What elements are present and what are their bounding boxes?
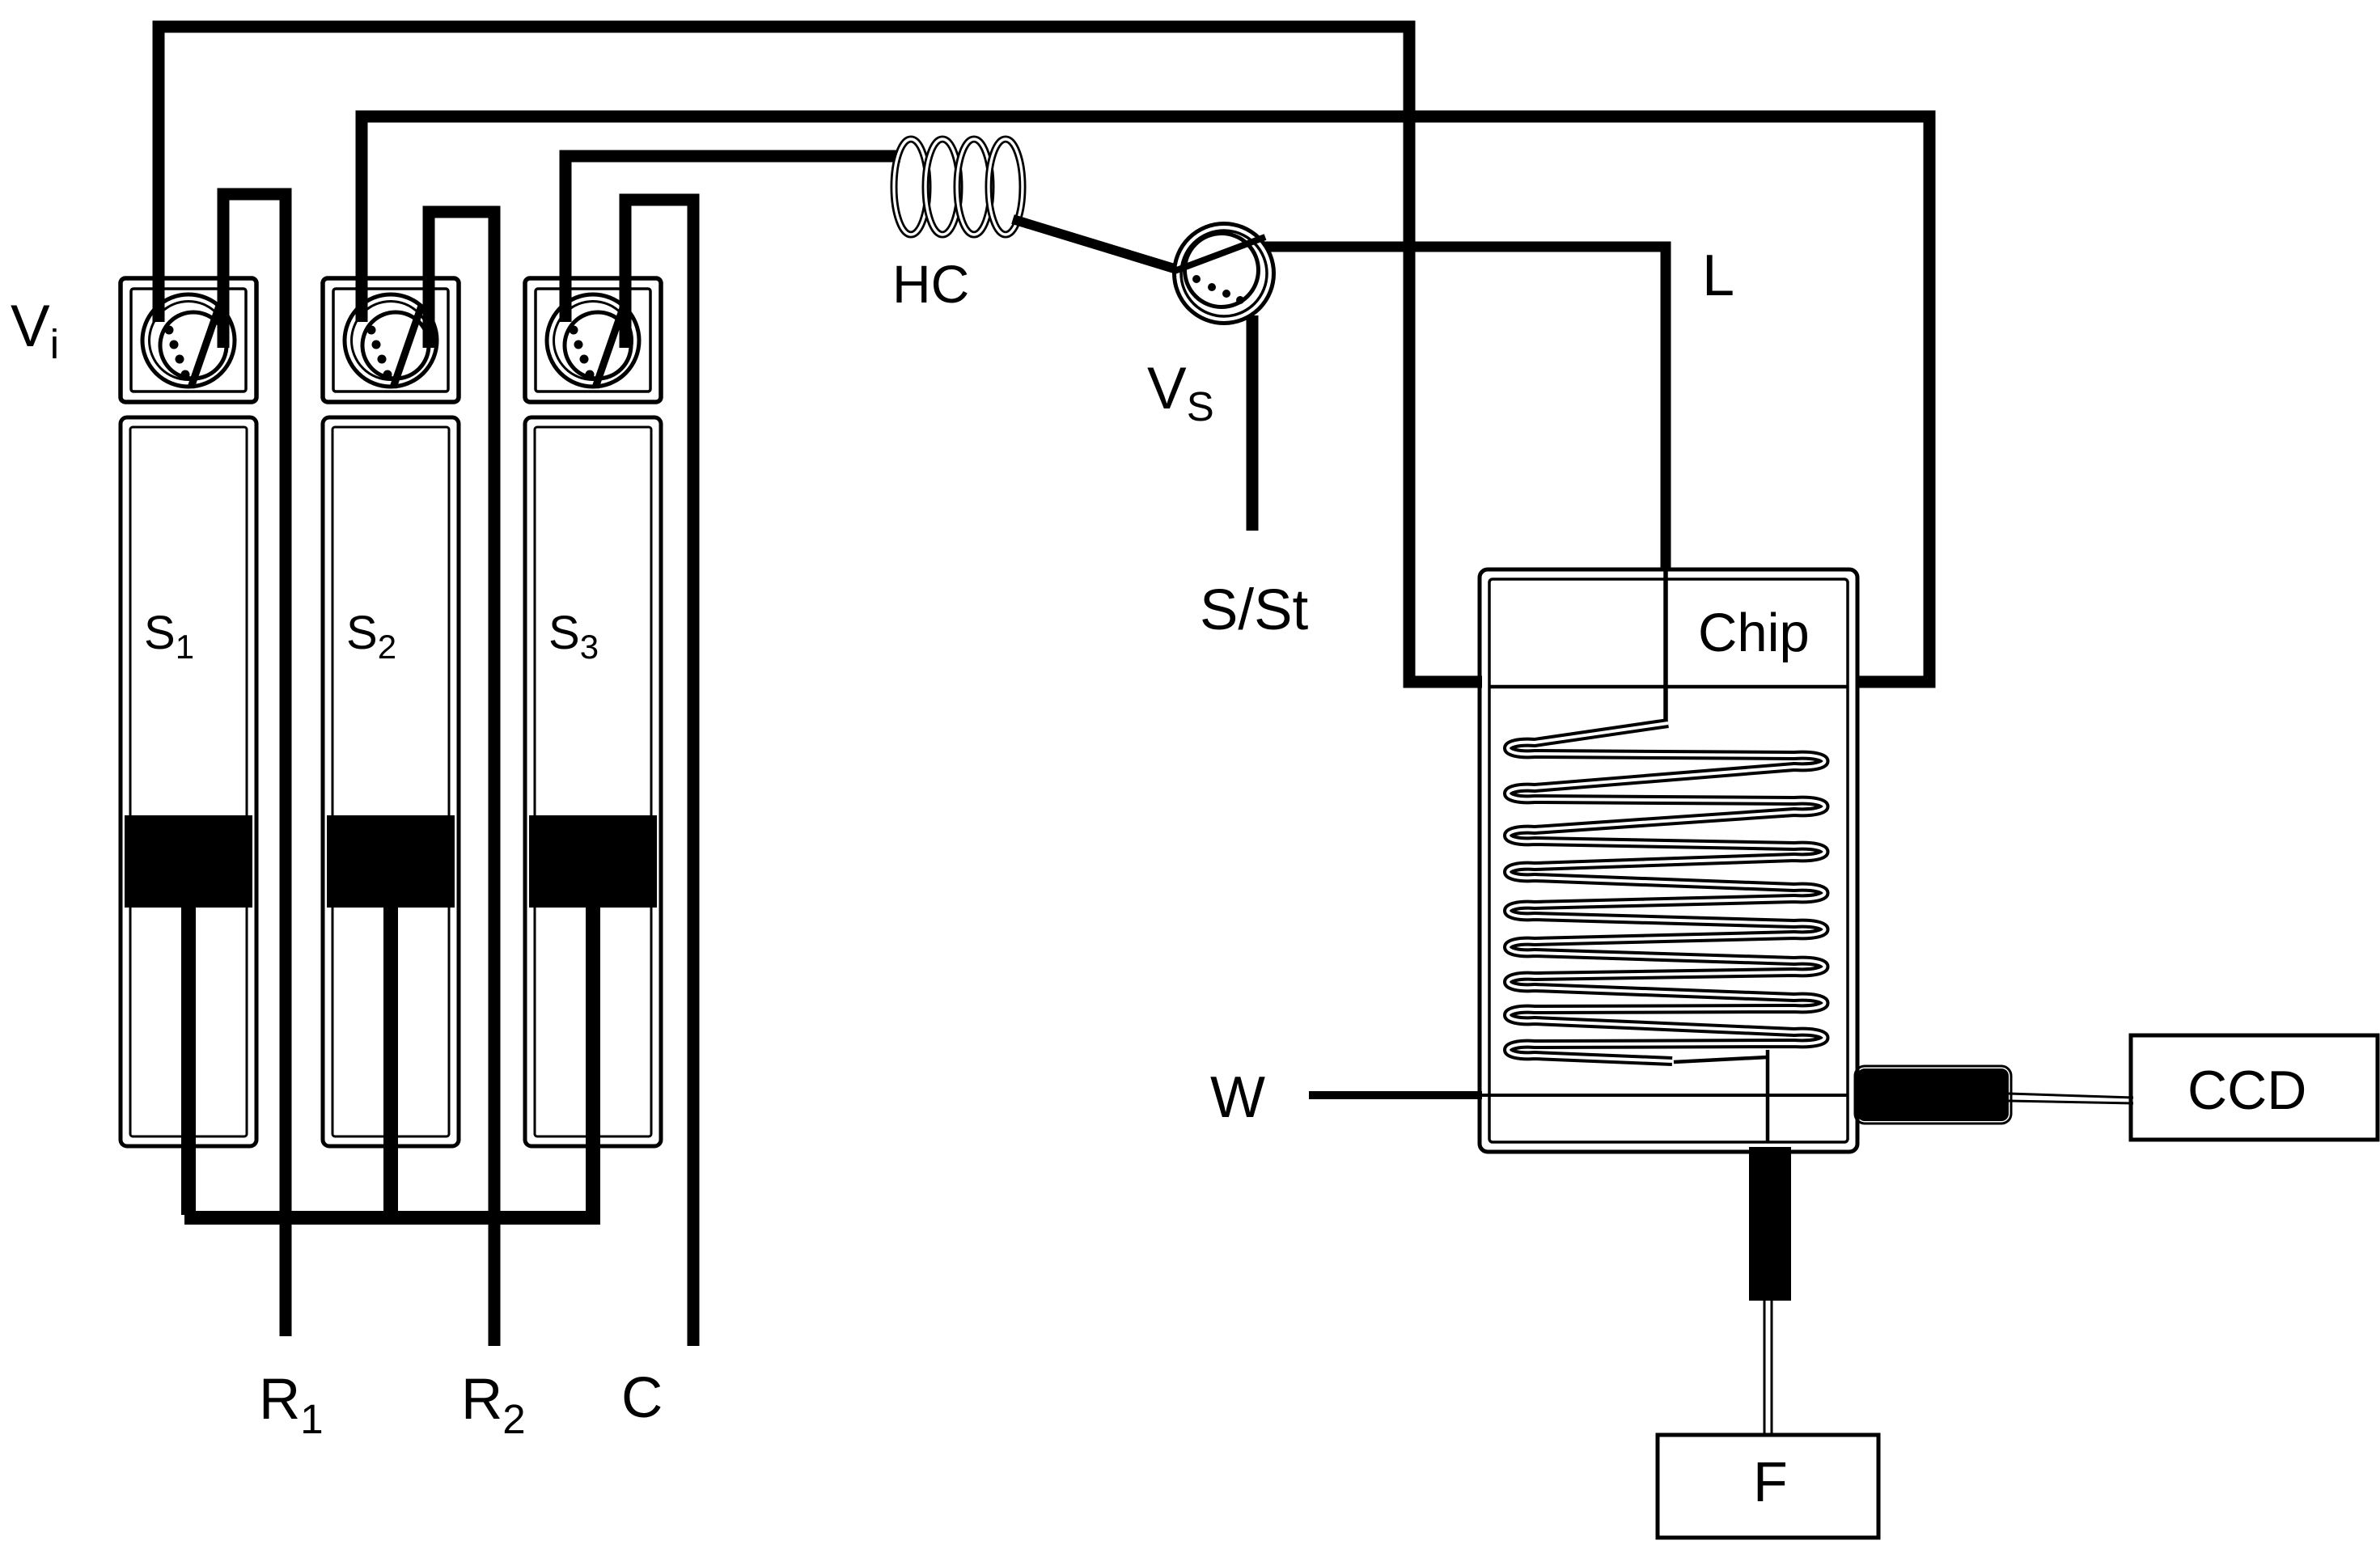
detector fiber holder (black bar to CCD) — [1855, 1066, 2011, 1123]
valve Vi unit 3 rotor — [547, 294, 639, 387]
chip inlet line — [1663, 569, 1668, 723]
valve Vi unit 3 box — [525, 278, 661, 402]
syringe S2 barrel — [323, 417, 459, 1146]
lamp fiber holder (black bar below chip) — [1749, 1147, 1791, 1301]
wire hairpin R2 inlet — [429, 212, 494, 1346]
wire W (waste line) — [1309, 1091, 1482, 1099]
wire hairpin R1 inlet — [223, 194, 286, 1336]
syringe S2 plunger rod — [383, 908, 398, 1215]
syringe S3 plunger — [529, 815, 657, 908]
svg-text:F: F — [1753, 1450, 1788, 1513]
wire hairpin C inlet — [625, 200, 693, 1346]
valve Vi unit 2 box — [323, 278, 459, 402]
valve Vi unit 2 rotor — [345, 294, 437, 387]
syringe S3 plunger rod — [586, 908, 600, 1215]
wire S/St (valve VS sample line) — [1247, 315, 1259, 531]
wire HC to valve VS — [1013, 219, 1179, 270]
wire bus 1 (valve 1 to chip left) — [159, 27, 1482, 682]
svg-text:HC: HC — [892, 254, 969, 314]
svg-text:S/St: S/St — [1200, 578, 1308, 642]
wire bus 2 (valve 2 to chip right) — [362, 116, 1929, 682]
syringe S3 barrel — [525, 417, 661, 1146]
optical fiber to lamp F — [1764, 1301, 1772, 1435]
svg-text:L: L — [1702, 243, 1734, 308]
valve Vi unit 1 rotor — [142, 294, 235, 387]
wire bus 3 (valve 3 to holding coil) — [565, 156, 900, 322]
chip outlet line — [1674, 1050, 1768, 1142]
chip serpentine channel — [1508, 723, 1825, 1061]
valve VS — [1175, 224, 1274, 324]
syringe S1 barrel — [121, 417, 256, 1146]
lamp box F — [1658, 1435, 1878, 1538]
syringe S1 plunger — [125, 815, 252, 908]
CCD detector box — [2131, 1035, 2378, 1140]
optical fiber to CCD — [2009, 1094, 2133, 1103]
syringe S1 plunger rod — [181, 908, 196, 1215]
svg-text:C: C — [621, 1366, 663, 1430]
valve Vi unit 1 box — [121, 278, 256, 402]
syringe pump drive bar — [184, 1211, 600, 1225]
svg-text:W: W — [1210, 1065, 1265, 1130]
svg-text:CCD: CCD — [2187, 1060, 2306, 1121]
holding coil HC — [894, 139, 1023, 235]
wire L (valve VS to chip inlet) — [1262, 247, 1666, 571]
syringe S2 plunger — [327, 815, 455, 908]
chip waste channel line — [1482, 1094, 1848, 1097]
svg-text:Chip: Chip — [1698, 603, 1810, 663]
chip body — [1480, 569, 1857, 1152]
